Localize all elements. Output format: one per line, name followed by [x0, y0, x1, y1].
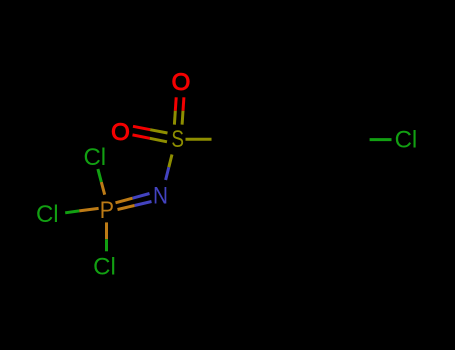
bond P-Cl top: [101, 182, 104, 195]
double bond P=N, line 2: [135, 202, 152, 206]
bond P-Cl left: [79, 208, 98, 211]
double bond P=N, line 1: [133, 194, 150, 199]
bond C4-Cl (half black, half green): [336, 138, 369, 141]
svg-text:Cl: Cl: [93, 254, 116, 281]
double bond S=O top, line 2: [182, 97, 186, 111]
svg-text:O: O: [111, 119, 130, 146]
benzene ring (carbons, black on black): [246, 102, 333, 177]
bond P-Cl bottom: [105, 222, 108, 239]
svg-text:Cl: Cl: [36, 201, 59, 228]
svg-text:Cl: Cl: [395, 126, 418, 153]
svg-text:P: P: [100, 197, 114, 224]
bond S-N: [169, 155, 172, 168]
svg-text:O: O: [172, 69, 191, 96]
svg-text:S: S: [171, 126, 184, 153]
double bond S=O top, line 1: [174, 97, 178, 111]
double bond S=O left, line 2: [133, 135, 150, 138]
svg-text:Cl: Cl: [83, 144, 106, 171]
bond S-C1 (half olive, half black): [186, 138, 212, 141]
double bond S=O left, line 1: [133, 126, 150, 129]
svg-text:N: N: [153, 183, 168, 210]
